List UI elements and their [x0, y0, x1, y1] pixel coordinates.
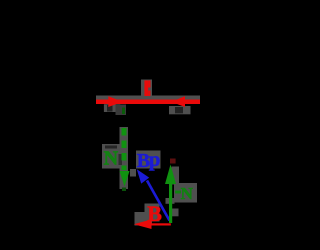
svg-text:N: N: [181, 184, 194, 203]
svg-text:N: N: [104, 147, 119, 169]
svg-text:p: p: [149, 147, 161, 171]
